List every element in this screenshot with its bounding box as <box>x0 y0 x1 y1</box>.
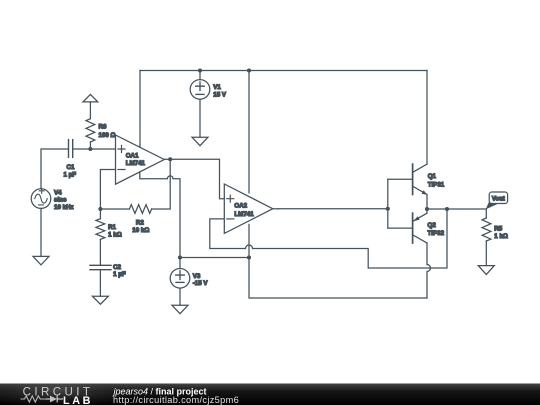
node junction -15V at V3 <box>178 255 182 259</box>
svg-text:TIP31: TIP31 <box>428 182 445 189</box>
ground under V4 <box>33 256 49 265</box>
node junction base bus <box>386 207 390 211</box>
svg-text:R5: R5 <box>494 225 502 232</box>
svg-text:R1: R1 <box>108 224 116 231</box>
svg-text:Q1: Q1 <box>428 173 437 180</box>
node junction emitters output <box>425 207 429 211</box>
capacitor C2 <box>90 265 111 296</box>
op-amp OA1 <box>116 135 171 184</box>
svg-text:LM741: LM741 <box>234 211 254 218</box>
footer bar <box>0 378 540 405</box>
svg-text:R2: R2 <box>136 220 144 227</box>
node junction OA1 output <box>168 157 172 161</box>
resistor R5 <box>485 209 487 218</box>
svg-text:1 kΩ: 1 kΩ <box>494 233 508 240</box>
node junction top rail at OA2 V+ <box>247 68 251 72</box>
svg-text:1 µF: 1 µF <box>113 271 126 278</box>
ground under V1 <box>192 137 208 146</box>
svg-text:10 kHz: 10 kHz <box>54 204 74 211</box>
resistor R1 <box>99 209 101 219</box>
wire Q1 base <box>388 178 413 180</box>
wire OA2 V+ supply <box>248 71 250 193</box>
svg-text:LAB: LAB <box>63 395 93 405</box>
wire OA1 output to OA2 + input <box>170 159 224 198</box>
wire OA1 V+ supply <box>139 71 141 148</box>
wire output to Vout and R5 <box>427 208 486 210</box>
wire Q2 base <box>388 227 413 229</box>
svg-text:Q2: Q2 <box>428 222 437 229</box>
node junction -15V at OA2 V- <box>247 255 251 259</box>
svg-text:1 µF: 1 µF <box>64 172 77 179</box>
op-amp OA2 <box>224 184 278 233</box>
wire +15V top rail <box>140 70 427 72</box>
wire -15V node to OA2 V- <box>180 257 249 259</box>
svg-text:100 Ω: 100 Ω <box>99 132 116 139</box>
ground under C2 <box>92 296 108 304</box>
capacitor C1 <box>69 140 73 158</box>
svg-text:sine: sine <box>54 197 67 204</box>
node junction top rail at V1 <box>198 68 202 72</box>
transistor Q2 TIP32 <box>413 209 427 243</box>
svg-text:1 kΩ: 1 kΩ <box>108 232 122 239</box>
svg-text:V4: V4 <box>54 189 62 196</box>
voltage source V3 <box>170 258 190 306</box>
svg-text:OA2: OA2 <box>234 203 247 210</box>
ground under V3 <box>172 305 188 313</box>
svg-text:OA1: OA1 <box>126 153 139 160</box>
wire base bus vertical <box>387 179 389 228</box>
wire OA2 output to base bus <box>278 208 388 210</box>
wire flag to R6 <box>89 102 91 119</box>
transistor Q1 TIP31 <box>413 164 428 209</box>
wire OA1 - input to feedback node <box>100 170 115 210</box>
svg-text:TIP32: TIP32 <box>428 230 445 237</box>
svg-text:R6: R6 <box>99 123 107 130</box>
voltage source V4 sine <box>31 188 51 256</box>
svg-text:-15 V: -15 V <box>193 280 209 287</box>
svg-text:V3: V3 <box>193 273 201 280</box>
node junction feedback node <box>98 207 102 211</box>
ground under R5 <box>478 266 494 275</box>
wire -15V rail down and right to Q2 collector <box>249 258 427 299</box>
resistor R6 <box>86 119 95 142</box>
wire Q1 collector to rail <box>426 71 428 165</box>
wire C1 to OA1 + input <box>73 148 116 150</box>
resistor R2 <box>100 208 129 210</box>
svg-text:V1: V1 <box>213 84 221 91</box>
node Vout flag <box>486 192 508 209</box>
power flag above R6 <box>83 94 98 102</box>
wire Q2 collector with hop over feedback wire <box>427 243 431 298</box>
svg-text:15 V: 15 V <box>213 91 227 98</box>
svg-text:Vout: Vout <box>492 197 505 203</box>
svg-text:C1: C1 <box>67 164 75 171</box>
svg-text:C2: C2 <box>113 264 121 271</box>
logo diode glyph <box>50 396 57 403</box>
node junction R6 input wire <box>88 147 92 151</box>
svg-text:LM741: LM741 <box>126 160 146 167</box>
wire OA2 - input feedback path with hop <box>210 209 447 268</box>
svg-text:10 kΩ: 10 kΩ <box>132 227 149 234</box>
wire R6 bottom <box>89 142 91 149</box>
wire OA1 V- with hop over output wire <box>140 172 180 258</box>
wire V4 to C1 <box>41 149 69 189</box>
logo resistor glyph <box>21 396 47 402</box>
voltage source V1 <box>190 71 210 138</box>
svg-text:http://circuitlab.com/cjz5pm6: http://circuitlab.com/cjz5pm6 <box>113 395 239 405</box>
wire OA2 V- supply <box>248 224 250 257</box>
node junction feedback tap <box>445 207 449 211</box>
